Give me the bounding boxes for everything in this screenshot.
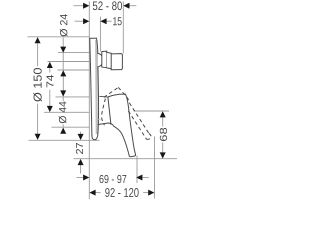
handle rear connector (99, 95, 108, 98)
wire: dashed-tip extension line (154, 137, 156, 199)
knob trumpet neck (98, 53, 102, 67)
wire: ext line at y112 (44, 111, 89, 113)
dimension D44 (59, 52, 67, 133)
dashed handle knuckle top edge (104, 87, 118, 97)
escutcheon plate (side view) (90, 38, 99, 140)
dimension D24 (60, 14, 68, 53)
handle body fill (98, 94, 135, 157)
handle right edge (125, 94, 135, 154)
dimension D150 (33, 37, 42, 140)
dashed handle left edge (102, 99, 106, 126)
handle lever left edge (114, 126, 129, 156)
dimension 52-80 (74, 1, 137, 10)
dimension 15 (75, 17, 122, 25)
handle knuckle left edge (108, 97, 111, 124)
dimension 27 (76, 132, 84, 174)
dashed handle tip cap (147, 133, 151, 139)
dimension 92-120 (89, 188, 154, 197)
wire: wall extension line (88, 2, 90, 200)
faint boss line (96, 119, 100, 121)
wire: ext line C (48, 61, 90, 63)
handle tip (129, 155, 135, 157)
wire: ext line at y140 (plate bottom) (29, 139, 100, 141)
dashed handle lower lever edge (128, 111, 146, 140)
dashed handle upper lever edge (118, 87, 149, 133)
wire: knob-start extension line (99, 17, 101, 52)
wire: ext line at y158 (handle bottom) (74, 158, 178, 160)
handle base cap top (98, 123, 114, 126)
wire: ext line A (plate top level) (28, 36, 90, 38)
wire: ext line at y127 (52, 126, 90, 128)
wire: ext line at y97 (56, 96, 90, 98)
knob ring (102, 51, 111, 69)
handle knuckle top (108, 94, 126, 97)
dimension 69-97 (77, 175, 149, 184)
wire: ext line B (58, 51, 89, 53)
wire: handle-tip extension line (136, 156, 138, 184)
wire: ext line at y111 (right) (134, 110, 170, 112)
wire: knob-face extension line (122, 2, 124, 54)
dimension 74 (47, 62, 54, 112)
dimension 68 (160, 111, 167, 158)
wire: ext line D (58, 69, 90, 71)
knob cylinder (111, 54, 122, 70)
